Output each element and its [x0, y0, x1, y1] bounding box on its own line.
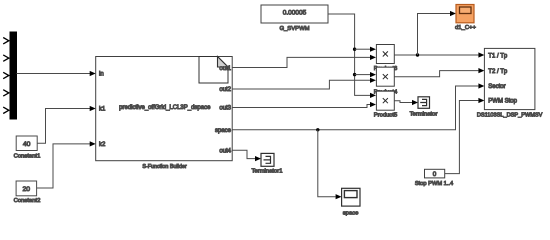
block scope space [342, 188, 360, 206]
block DS1103SL_DSP_PWMSV [484, 48, 535, 109]
svg-text:Constant1: Constant1 [14, 153, 41, 159]
svg-text:G_SVPWM: G_SVPWM [279, 26, 309, 32]
junction dot G_SVPWM branch 1 [353, 48, 356, 51]
svg-text:0: 0 [433, 171, 437, 178]
svg-text:Terminator1: Terminator1 [251, 168, 282, 174]
wire space output to Sector with scope branch [232, 86, 478, 130]
svg-text:T2 / Tp: T2 / Tp [488, 69, 508, 75]
svg-text:out2: out2 [219, 87, 231, 93]
block d1_C++ (orange RTI data block) [456, 5, 474, 23]
svg-text:DS1103SL_DSP_PWMSV: DS1103SL_DSP_PWMSV [477, 113, 543, 119]
S-function page icon with folded corner [199, 57, 228, 84]
junction dot on T1 wire [416, 53, 419, 56]
block constant G_SVPWM 0.00005 [261, 5, 328, 23]
svg-text:Product5: Product5 [374, 112, 398, 118]
svg-text:d1_C++: d1_C++ [455, 25, 477, 31]
block constant 0 Stop PWM [425, 169, 445, 178]
block S-Function Builder [96, 57, 233, 161]
wire branch up to d1_C++ [418, 14, 451, 56]
mux input chevron 1 [3, 38, 9, 44]
svg-text:T1 / Tp: T1 / Tp [488, 53, 508, 59]
svg-text:Constant2: Constant2 [14, 198, 41, 204]
svg-text:S-Function Builder: S-Function Builder [142, 164, 187, 170]
svg-text:space: space [343, 211, 359, 217]
svg-text:PWM Stop: PWM Stop [488, 99, 517, 105]
wire out3 to Product5 bottom input [232, 105, 370, 108]
block Product5 (multiplier) [376, 91, 394, 110]
mux input chevron 3 [3, 72, 9, 78]
block Product3 (multiplier) [376, 45, 394, 64]
junction dot G_SVPWM branch 2 [353, 73, 356, 76]
block Terminator1 [261, 153, 274, 166]
svg-text:k2: k2 [99, 142, 106, 148]
wire constant 0 to PWM Stop [445, 101, 479, 174]
svg-text:Terminator: Terminator [410, 111, 438, 117]
svg-text:Stop PWM 1..4: Stop PWM 1..4 [415, 181, 453, 187]
wire branch down to scope space [318, 130, 336, 197]
mux Mux black bar [10, 32, 17, 119]
svg-text:out1: out1 [219, 66, 231, 72]
svg-text:40: 40 [23, 141, 31, 148]
svg-text:k1: k1 [99, 107, 106, 113]
block Terminator [418, 97, 430, 109]
svg-text:0.00005: 0.00005 [283, 9, 307, 16]
mux input chevron 5 [3, 107, 9, 113]
svg-text:20: 20 [23, 186, 31, 193]
svg-text:out3: out3 [219, 106, 231, 112]
wire out2 to Product4 bottom input [232, 80, 370, 89]
wire out1 to Product3 bottom input [232, 57, 370, 67]
svg-text:out4: out4 [219, 149, 231, 155]
wire Product4 to T2/Tp [394, 71, 478, 77]
wire out4 to Terminator1 [232, 150, 255, 158]
wire Constant1 to k1 [37, 109, 90, 144]
block Constant1 value 40 [16, 136, 37, 151]
wire Product3 to T1/Tp [394, 54, 478, 56]
wire Mux output to S-function in port [17, 73, 91, 75]
junction dot on space wire [316, 128, 319, 131]
svg-text:predictive_offGrid_LCL3P_dspac: predictive_offGrid_LCL3P_dspace [119, 105, 211, 111]
mux input chevron 4 [3, 90, 9, 96]
svg-text:in: in [99, 72, 104, 78]
wire G_SVPWM to product top inputs [328, 14, 370, 95]
svg-text:Sector: Sector [488, 84, 505, 90]
mux input chevron 2 [3, 55, 9, 61]
block Product4 (multiplier) [376, 67, 394, 86]
wire branch to Product top input 2 [355, 74, 370, 76]
wire branch to Product top input 1 [355, 48, 370, 50]
wire Constant2 to k2 [37, 144, 90, 188]
block Constant2 value 20 [16, 181, 36, 196]
wire Product5 to Terminator [394, 101, 412, 103]
svg-text:space: space [215, 128, 232, 134]
